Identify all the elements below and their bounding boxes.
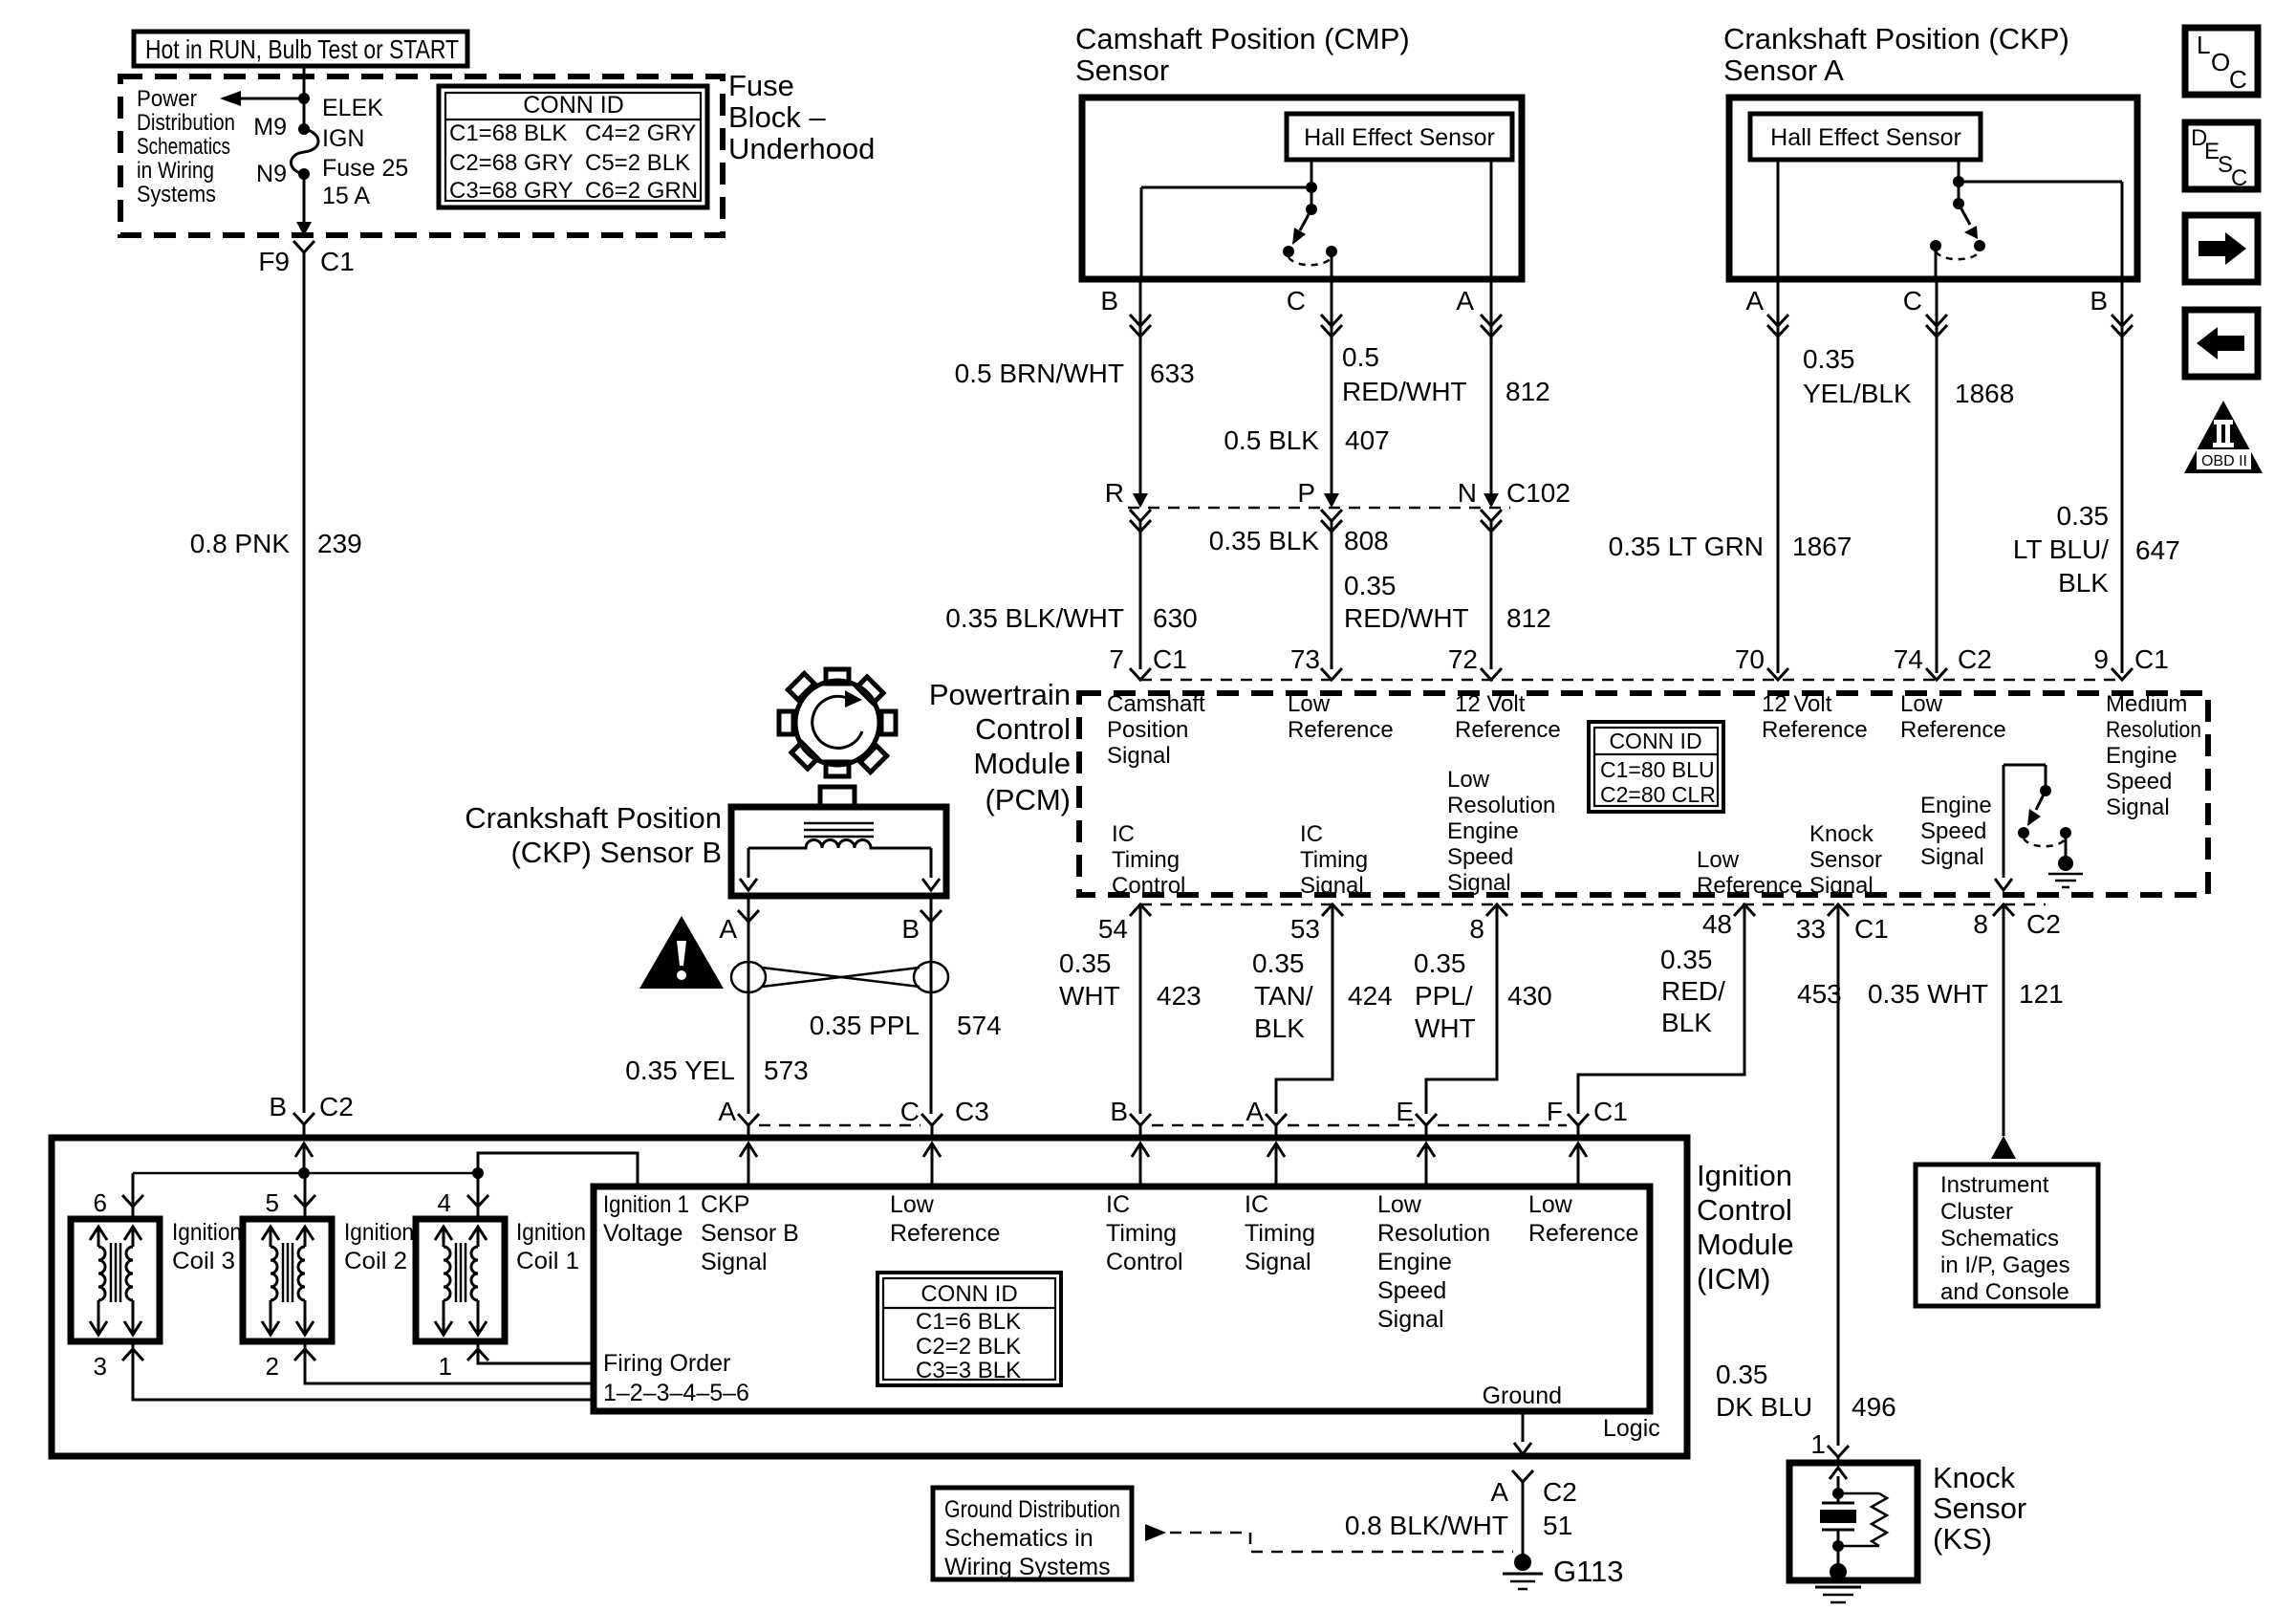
svg-text:647: 647 [2135,535,2180,565]
svg-text:B: B [269,1092,287,1121]
gear icon (reluctor wheel) above CKP sensor B [758,643,916,801]
svg-text:in Wiring: in Wiring [137,158,214,184]
svg-text:1–2–3–4–5–6: 1–2–3–4–5–6 [603,1380,749,1406]
svg-text:Firing Order: Firing Order [603,1350,730,1377]
svg-text:Module: Module [973,747,1071,780]
svg-text:Low: Low [1288,691,1331,717]
C102 pin R [1105,478,1151,669]
svg-text:Engine: Engine [1920,793,1992,818]
CKP A pin A wire 1867 [1609,279,1852,673]
svg-text:0.35: 0.35 [1660,945,1713,974]
svg-text:Engine: Engine [2106,743,2177,769]
ignition coil 2 [243,1219,332,1341]
svg-text:IC: IC [1245,1191,1268,1218]
svg-text:Timing: Timing [1245,1220,1315,1247]
PCM pin 74 C2 [1894,644,2006,743]
svg-text:430: 430 [1507,981,1552,1011]
svg-text:0.5 BRN/WHT: 0.5 BRN/WHT [955,359,1124,388]
svg-text:Instrument: Instrument [1940,1172,2049,1198]
svg-text:C1=80 BLU: C1=80 BLU [1600,757,1715,782]
svg-text:Ignition: Ignition [516,1219,586,1246]
svg-text:A: A [719,914,737,944]
svg-text:Cluster: Cluster [1940,1199,2013,1225]
wire 239 0.8 PNK down to ICM pin B C2 [303,252,306,1113]
CMP pin B wire 633 [955,279,1195,493]
svg-text:Logic: Logic [1603,1415,1660,1442]
ground symbol inside PCM [2048,856,2083,887]
svg-text:Underhood: Underhood [728,132,875,165]
CKP A pin C wire 1868 [1803,279,2014,673]
svg-text:Control: Control [975,712,1071,746]
svg-text:0.35 BLK: 0.35 BLK [1209,526,1320,555]
ground G113 [1503,1554,1624,1589]
svg-text:12 Volt: 12 Volt [1762,691,1832,717]
svg-text:Sensor B: Sensor B [701,1220,799,1247]
svg-text:1867: 1867 [1792,532,1852,561]
svg-text:0.8 BLK/WHT: 0.8 BLK/WHT [1345,1511,1508,1540]
wire tap to power distribution (left arrow) [241,98,304,100]
svg-text:239: 239 [317,529,362,558]
svg-text:R: R [1105,478,1124,508]
svg-text:Sensor A: Sensor A [1723,54,1844,87]
svg-text:33: 33 [1796,914,1826,944]
wire 51 0.8 BLK/WHT to ground G113 [1345,1482,1572,1555]
svg-text:Systems: Systems [137,182,216,207]
ICM internal feed arrows to top pins [295,1143,1587,1186]
Instrument Cluster Schematics box [1916,1165,2098,1306]
svg-text:3: 3 [94,1352,107,1381]
svg-text:IC: IC [1106,1191,1130,1218]
coil pin 6 connector [94,1188,143,1217]
svg-text:Reference: Reference [1528,1220,1638,1247]
svg-text:Ground Distribution: Ground Distribution [944,1496,1120,1523]
svg-text:Schematics: Schematics [1940,1226,2059,1252]
svg-text:Speed: Speed [1447,844,1513,870]
connector C102 dashed line [1128,507,1510,510]
svg-text:C1=6 BLK: C1=6 BLK [916,1309,1021,1335]
knock sensor ground [1815,1563,1861,1602]
Camshaft Position (CMP) Sensor title [1075,22,1410,87]
svg-text:Wiring Systems: Wiring Systems [944,1554,1111,1580]
wire coil3 pin 3 to logic (firing order) [133,1341,594,1400]
svg-text:C1: C1 [320,247,355,276]
svg-text:2: 2 [266,1352,279,1381]
ignition voltage distribution rail [133,1153,638,1219]
svg-text:A: A [718,1097,736,1126]
svg-text:Timing: Timing [1112,847,1180,873]
Powertrain Control Module (PCM) title [929,678,1071,816]
PCM pin 54 wire 423 to ICM pin B [1059,904,1202,1138]
svg-text:0.35 YEL: 0.35 YEL [625,1056,735,1085]
PCM pin 8 wire 430 to ICM pin E [1396,904,1551,1138]
note Power Distribution Schematics in Wiring Systems [137,86,235,207]
svg-text:C2=80 CLR: C2=80 CLR [1600,782,1716,807]
svg-text:8: 8 [1469,914,1484,944]
sidebar icon LOC [2185,28,2258,95]
svg-text:B: B [1110,1097,1128,1126]
label Fuse Block - Underhood [728,69,875,165]
fuse block underhood dashed box [120,76,723,235]
svg-text:7: 7 [1109,644,1124,674]
svg-text:Powertrain: Powertrain [929,678,1071,711]
C102 pin P [1297,478,1342,669]
svg-text:C6=2 GRN: C6=2 GRN [585,178,698,204]
PCM pin 33 C1 wire 496 to knock sensor [1716,904,1896,1463]
PCM pin 70 [1735,644,1868,743]
svg-text:0.35 PPL: 0.35 PPL [810,1011,920,1040]
svg-text:A: A [1456,286,1474,316]
svg-text:Schematics: Schematics [137,134,230,160]
svg-text:Coil 3: Coil 3 [172,1248,235,1274]
Knock Sensor (KS) box [1789,1461,2026,1580]
ICM connector dashed lines [759,1124,921,1127]
svg-text:Voltage: Voltage [603,1220,682,1247]
CONN ID table (fuse block) [439,86,707,207]
svg-text:Camshaft: Camshaft [1107,691,1205,717]
CONN ID table (ICM) [877,1273,1061,1385]
svg-text:Coil 2: Coil 2 [344,1248,407,1274]
svg-text:48: 48 [1702,909,1732,939]
svg-text:RED/WHT: RED/WHT [1342,377,1467,406]
svg-text:0.35: 0.35 [2057,501,2110,531]
PCM pin 8 C2 wire 121 to instrument cluster [1868,904,2064,1159]
svg-text:Block –: Block – [728,100,826,134]
svg-text:A: A [1245,1097,1264,1126]
svg-text:Medium: Medium [2106,691,2187,717]
svg-text:Signal: Signal [701,1249,768,1275]
svg-text:808: 808 [1344,526,1389,555]
svg-text:A: A [1490,1477,1508,1507]
coil pin 5 connector [266,1188,315,1217]
svg-text:N: N [1458,478,1477,508]
svg-text:Reference: Reference [1455,717,1561,743]
CKP B pin A [719,896,759,1114]
svg-text:CONN ID: CONN ID [921,1281,1017,1307]
svg-text:Signal: Signal [1809,873,1874,899]
PCM pin 7 C1 [1107,644,1205,769]
svg-text:C4=2 GRY: C4=2 GRY [585,120,696,146]
svg-text:F9: F9 [258,247,290,276]
svg-text:70: 70 [1735,644,1765,674]
Ignition Control Module (ICM) box [52,1138,1687,1456]
Crankshaft Position (CKP) Sensor B title [465,801,722,869]
svg-text:TAN/: TAN/ [1254,981,1313,1011]
fuse F25 symbol (ELEK IGN Fuse 25 15 A) [292,123,319,180]
svg-text:12 Volt: 12 Volt [1455,691,1526,717]
svg-text:53: 53 [1290,914,1320,944]
svg-text:CONN ID: CONN ID [1609,729,1701,753]
svg-text:453: 453 [1797,979,1842,1009]
svg-text:C1: C1 [1854,914,1889,944]
CKP sensor B box with mounting tab [731,787,946,896]
svg-text:O: O [2211,48,2230,76]
PCM dashed box [1079,693,2208,895]
svg-text:B: B [2090,286,2108,316]
svg-text:Signal: Signal [1920,844,1984,870]
wire fuse output down to connector F9 [303,174,306,222]
svg-text:Ground: Ground [1483,1382,1562,1409]
svg-text:C1=68 BLK: C1=68 BLK [449,120,567,146]
svg-text:9: 9 [2093,644,2109,674]
logic box inside ICM [594,1186,1650,1411]
svg-text:F: F [1547,1097,1563,1126]
twisted pair symbol between wires A and B [731,962,948,992]
svg-text:0.35: 0.35 [1059,948,1112,978]
svg-text:Speed: Speed [1920,818,1986,844]
CKP A internal wiring and switch [1778,160,2122,279]
svg-text:Low: Low [1377,1191,1422,1218]
connector B C2 at ICM [293,1113,314,1124]
svg-text:Low: Low [1697,847,1740,873]
svg-text:0.35 BLK/WHT: 0.35 BLK/WHT [945,603,1124,633]
wire from Hot feed into fuse block [303,66,306,129]
svg-text:Reference: Reference [1697,873,1803,899]
svg-text:IGN: IGN [322,125,364,152]
svg-text:C1: C1 [1593,1097,1628,1126]
svg-text:Camshaft Position (CMP): Camshaft Position (CMP) [1075,22,1410,55]
svg-text:Crankshaft Position: Crankshaft Position [465,801,722,835]
svg-text:Fuse 25: Fuse 25 [322,155,408,182]
PCM pin 72 [1448,644,1561,743]
svg-text:633: 633 [1150,359,1195,388]
svg-text:C3=3 BLK: C3=3 BLK [916,1358,1021,1383]
svg-text:IC: IC [1300,821,1323,847]
svg-text:Crankshaft Position (CKP): Crankshaft Position (CKP) [1723,22,2069,55]
svg-text:Hall Effect Sensor: Hall Effect Sensor [1304,124,1495,151]
svg-text:C: C [2231,165,2247,191]
svg-text:Speed: Speed [1377,1277,1446,1304]
svg-text:C5=2 BLK: C5=2 BLK [585,150,690,176]
coil 1 pin 1 connector [467,1349,488,1361]
CKP A pin B wire 647 [2013,279,2180,673]
svg-text:CKP: CKP [701,1191,749,1218]
PCM connector dashed line bottom [1140,903,2046,906]
svg-text:G113: G113 [1553,1555,1624,1588]
svg-text:L: L [2197,31,2210,59]
svg-text:(KS): (KS) [1933,1522,1992,1556]
svg-text:Distribution: Distribution [137,110,235,136]
svg-text:in I/P, Gages: in I/P, Gages [1940,1252,2070,1278]
svg-text:C: C [1903,286,1922,316]
CMP internal wiring and switch [1141,160,1491,279]
svg-text:Resolution: Resolution [1447,793,1555,818]
svg-text:Ignition: Ignition [172,1219,242,1246]
svg-text:B: B [1100,286,1118,316]
svg-text:ELEK: ELEK [322,95,383,121]
svg-text:Signal: Signal [1377,1306,1444,1333]
svg-text:Fuse: Fuse [728,69,794,102]
svg-text:Control: Control [1112,873,1185,899]
ignition coil 3 [71,1219,160,1341]
svg-text:DK BLU: DK BLU [1716,1392,1812,1422]
svg-text:Coil 1: Coil 1 [516,1248,579,1274]
svg-text:Signal: Signal [1245,1249,1311,1275]
svg-text:Timing: Timing [1106,1220,1177,1247]
svg-text:C2: C2 [1543,1477,1577,1507]
svg-text:0.35 LT GRN: 0.35 LT GRN [1609,532,1764,561]
svg-text:C: C [1287,286,1306,316]
svg-text:Ignition: Ignition [344,1219,414,1246]
svg-text:407: 407 [1345,425,1390,455]
svg-text:Timing: Timing [1300,847,1368,873]
svg-text:PPL/: PPL/ [1415,981,1473,1011]
coil 2 pin 2 connector [294,1349,315,1361]
connector A C2 below ICM [1490,1470,1576,1507]
svg-text:Sensor: Sensor [1809,847,1882,873]
svg-text:Sensor: Sensor [1933,1491,2026,1525]
svg-text:0.35: 0.35 [1414,948,1466,978]
svg-text:812: 812 [1505,377,1550,406]
svg-text:423: 423 [1157,981,1202,1011]
PCM internal labels bottom row [1112,821,1185,899]
svg-text:BLK: BLK [2058,568,2109,598]
svg-text:Reference: Reference [890,1220,1000,1247]
svg-text:and Console: and Console [1940,1279,2069,1305]
svg-text:Resolution: Resolution [2106,717,2201,743]
PCM pin 9 C1 [2093,644,2201,820]
sidebar icon OBD II triangle [2184,401,2263,473]
svg-text:Hall Effect Sensor: Hall Effect Sensor [1770,124,1961,151]
svg-text:YEL/BLK: YEL/BLK [1803,379,1912,408]
svg-text:630: 630 [1153,603,1198,633]
CKP B internal coil (inductive pickup) [740,823,940,890]
wire engine speed signal to pin 8 C2 [1995,765,2012,890]
ignition coil 1 [416,1219,505,1341]
svg-text:Signal: Signal [2106,795,2170,820]
svg-text:RED/: RED/ [1661,976,1725,1006]
svg-text:573: 573 [764,1056,809,1085]
logic box labels [603,1191,689,1247]
svg-text:Knock: Knock [1809,821,1874,847]
PCM engine speed signal switch [2004,765,2071,858]
svg-text:Signal: Signal [1107,743,1171,769]
svg-text:51: 51 [1543,1511,1572,1540]
connector F9 C1 [293,241,314,252]
svg-text:C2=68 GRY: C2=68 GRY [449,150,574,176]
svg-text:Speed: Speed [2106,769,2172,795]
svg-text:BLK: BLK [1661,1008,1712,1037]
CONN ID table (PCM) [1589,722,1723,812]
svg-text:C3=68 GRY: C3=68 GRY [449,178,574,204]
svg-text:Reference: Reference [1900,717,2006,743]
logic ground pin wire [1483,1382,1562,1454]
coil 3 pin 3 connector [122,1349,143,1361]
svg-text:C2: C2 [319,1092,354,1121]
CKP B pin B [901,896,942,1114]
svg-text:15 A: 15 A [322,183,370,209]
svg-text:574: 574 [957,1011,1002,1040]
svg-text:C2=2 BLK: C2=2 BLK [916,1334,1021,1360]
svg-text:424: 424 [1348,981,1393,1011]
svg-text:(ICM): (ICM) [1697,1262,1770,1295]
ICM pin A (CKP B signal) [718,1097,759,1138]
CMP pin A wire 812 [1342,279,1550,493]
PCM pin 73 [1288,644,1394,743]
svg-text:CONN ID: CONN ID [523,92,624,119]
ICM pin C C3 (low reference) [900,1097,989,1138]
svg-text:0.5: 0.5 [1342,342,1379,372]
svg-text:121: 121 [2019,979,2064,1009]
warning triangle [639,916,724,989]
svg-text:Engine: Engine [1377,1249,1452,1275]
svg-text:A: A [1745,286,1764,316]
CKP sensor A box [1729,98,2137,279]
sidebar icon arrow left [2185,310,2258,377]
svg-text:E: E [1396,1097,1414,1126]
svg-text:RED/WHT: RED/WHT [1344,603,1469,633]
svg-text:1: 1 [1810,1429,1826,1459]
ICM title [1697,1159,1794,1295]
sidebar icon arrow right [2185,215,2258,282]
svg-text:0.35: 0.35 [1716,1360,1768,1389]
C102 pin N [1458,478,1570,669]
svg-text:C1: C1 [2134,644,2169,674]
svg-text:N9: N9 [256,161,287,187]
svg-text:8: 8 [1973,909,1988,939]
svg-text:C: C [900,1097,920,1126]
Ground Distribution Schematics note box [933,1488,1132,1580]
svg-text:Low: Low [890,1191,935,1218]
svg-text:Position: Position [1107,717,1188,743]
svg-text:0.35: 0.35 [1252,948,1305,978]
svg-text:(PCM): (PCM) [985,783,1071,816]
PCM connector dashed line top [1140,679,2124,682]
svg-text:812: 812 [1506,603,1551,633]
svg-text:1: 1 [439,1352,452,1381]
svg-text:Reference: Reference [1762,717,1868,743]
svg-text:WHT: WHT [1415,1013,1476,1043]
svg-text:74: 74 [1894,644,1923,674]
hall effect sensor box (CMP) [1287,114,1512,160]
svg-text:Reference: Reference [1288,717,1394,743]
knock sensor internals [1820,1468,1887,1566]
svg-text:Module: Module [1697,1228,1794,1261]
svg-text:4: 4 [438,1188,451,1217]
svg-text:Hot in RUN, Bulb Test or START: Hot in RUN, Bulb Test or START [145,34,459,64]
PCM pin 48 wire 453 to ICM pin F C1 [1547,904,1842,1138]
wire coil2 pin 2 to logic (firing order) [305,1341,594,1383]
svg-text:(CKP) Sensor B: (CKP) Sensor B [510,836,722,869]
svg-text:BLK: BLK [1254,1013,1305,1043]
svg-text:5: 5 [266,1188,279,1217]
svg-text:0.5 BLK: 0.5 BLK [1224,425,1319,455]
svg-text:C2: C2 [1958,644,1992,674]
svg-text:C1: C1 [1153,644,1187,674]
svg-text:Ignition: Ignition [1697,1159,1792,1192]
power feed box "Hot in RUN, Bulb Test or START" [134,32,467,66]
CMP sensor box [1082,98,1522,279]
coil pin 4 connector [438,1188,488,1217]
svg-text:Low: Low [1447,767,1490,793]
svg-text:Control: Control [1697,1193,1792,1227]
hall effect sensor box (CKP A) [1750,114,1981,160]
sidebar icon DESC [2185,122,2258,191]
wire coil1 pin 1 to logic (firing order) [478,1341,594,1363]
svg-text:0.35: 0.35 [1344,571,1397,600]
svg-text:54: 54 [1098,914,1128,944]
svg-text:Ignition 1: Ignition 1 [603,1191,689,1218]
svg-text:Resolution: Resolution [1377,1220,1490,1247]
svg-text:Low: Low [1900,691,1943,717]
svg-text:B: B [901,914,920,944]
CMP pin C wire 407 [1224,279,1389,493]
svg-text:LT BLU/: LT BLU/ [2013,534,2109,564]
svg-text:C102: C102 [1506,478,1570,508]
svg-text:Sensor: Sensor [1075,54,1169,87]
svg-text:6: 6 [94,1188,107,1217]
svg-text:1868: 1868 [1955,379,2014,408]
svg-text:Low: Low [1528,1191,1573,1218]
